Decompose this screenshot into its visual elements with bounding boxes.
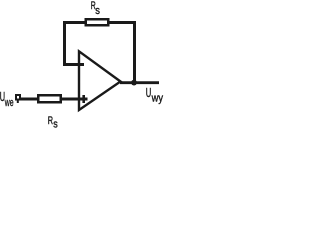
svg-text:s: s bbox=[53, 119, 58, 131]
svg-text:wy: wy bbox=[151, 92, 164, 104]
svg-text:we: we bbox=[4, 97, 13, 109]
svg-text:s: s bbox=[95, 5, 100, 17]
svg-text:U: U bbox=[146, 85, 152, 100]
